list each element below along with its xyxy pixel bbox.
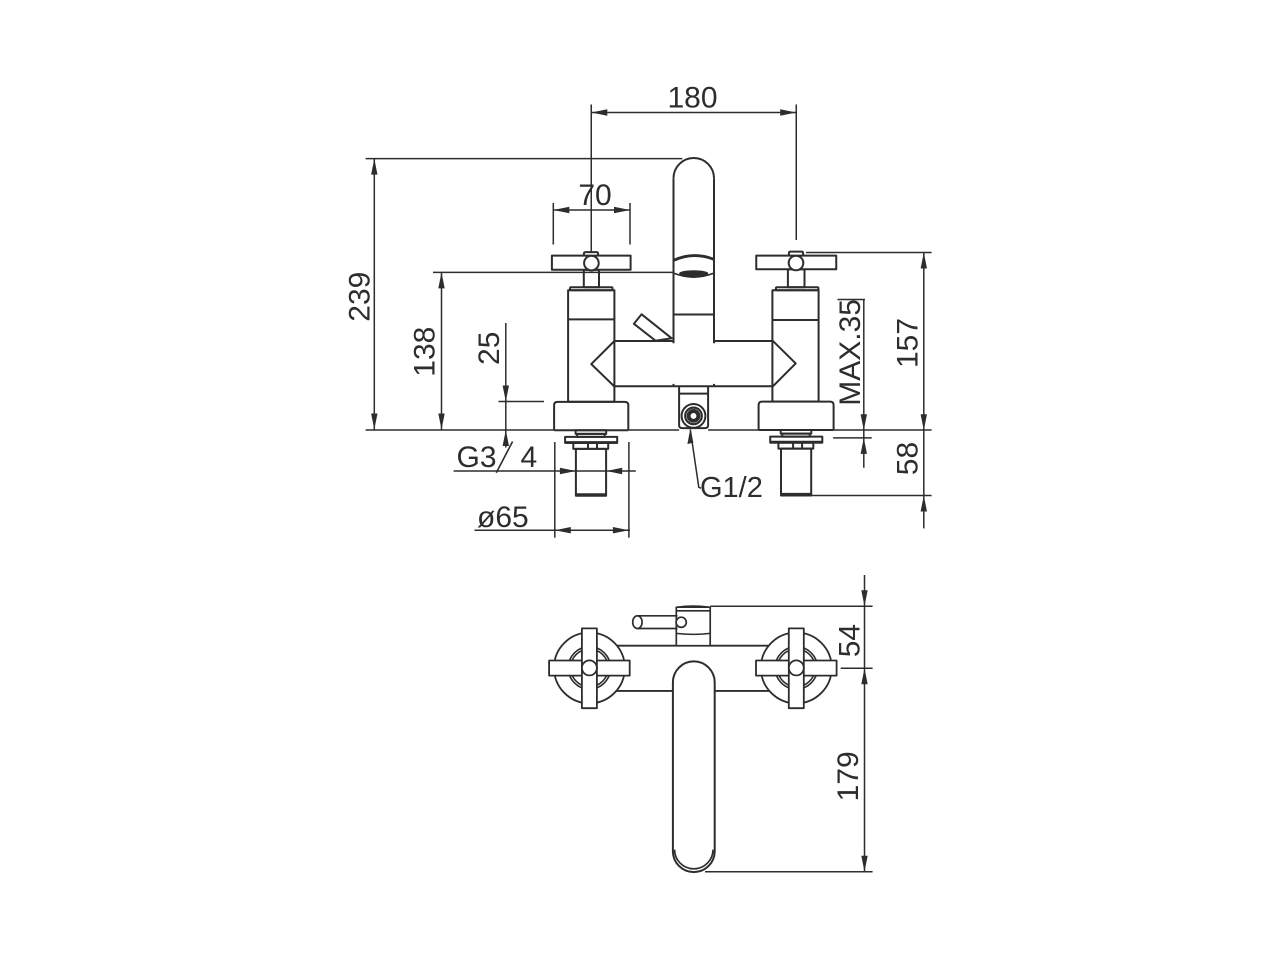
svg-text:G1/2: G1/2 (700, 472, 763, 504)
svg-text:4: 4 (521, 441, 538, 474)
svg-text:MAX.35: MAX.35 (834, 299, 867, 406)
svg-text:70: 70 (578, 179, 611, 212)
svg-text:25: 25 (473, 332, 506, 365)
svg-text:180: 180 (667, 82, 717, 115)
svg-text:58: 58 (892, 442, 925, 475)
svg-text:239: 239 (344, 272, 377, 322)
svg-text:54: 54 (833, 624, 866, 657)
svg-text:157: 157 (892, 318, 925, 368)
svg-text:G3: G3 (457, 441, 497, 474)
svg-text:ø65: ø65 (477, 501, 529, 534)
svg-text:138: 138 (409, 327, 442, 377)
svg-text:179: 179 (832, 751, 865, 801)
